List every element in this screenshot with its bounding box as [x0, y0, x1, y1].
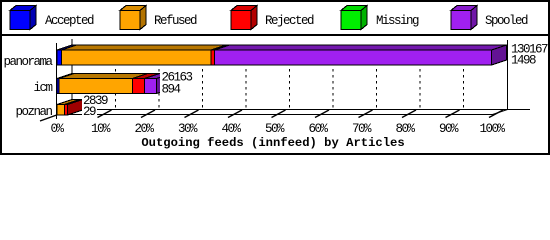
tick 70% — [359, 110, 373, 118]
bar panorama: orange segment — [62, 45, 227, 65]
svg-text:40%: 40% — [221, 122, 241, 136]
svg-text:100%: 100% — [479, 122, 505, 136]
legend cube Refused — [120, 6, 146, 30]
legend cube Spooled — [451, 6, 477, 30]
bar poznan: orange segment — [57, 100, 80, 116]
value label background icm — [160, 70, 196, 96]
tick 30% — [185, 110, 199, 118]
tick 60% — [315, 110, 329, 118]
svg-text:90%: 90% — [439, 122, 459, 136]
bar panorama: red segment — [211, 45, 230, 65]
back 100% axis line — [507, 40, 509, 110]
legend cube Missing — [341, 6, 367, 30]
bar panorama: blue segment — [57, 45, 77, 65]
tick 40% — [228, 110, 242, 118]
svg-text:Refused: Refused — [154, 14, 197, 28]
dashed gridlines 10%-90% (back wall) — [116, 45, 464, 110]
svg-text:Outgoing feeds (innfeed) by Ar: Outgoing feeds (innfeed) by Articles — [141, 136, 404, 150]
svg-text:Missing: Missing — [376, 14, 419, 28]
svg-text:panorama: panorama — [3, 55, 53, 69]
bar panorama: purple segment — [215, 45, 507, 65]
bar icm: purple segment — [145, 74, 172, 94]
legend cube Accepted — [10, 6, 36, 30]
bottom-right corner edge — [493, 110, 508, 115]
outer border — [1, 1, 549, 154]
legend separator — [2, 34, 548, 36]
tick 90% — [446, 110, 460, 118]
tick 50% — [272, 110, 286, 118]
back bottom axis line — [72, 109, 530, 111]
x ticks — [40, 110, 503, 122]
svg-text:80%: 80% — [395, 122, 415, 136]
tick 20% — [141, 110, 155, 118]
tick 0% — [40, 110, 72, 122]
svg-text:60%: 60% — [308, 122, 328, 136]
bar poznan: red segment — [65, 100, 83, 116]
svg-text:10%: 10% — [91, 122, 111, 136]
svg-text:20%: 20% — [134, 122, 154, 136]
svg-text:Rejected: Rejected — [265, 14, 314, 28]
tick 100% — [489, 110, 503, 118]
y axis — [56, 43, 58, 119]
svg-text:poznan: poznan — [15, 105, 52, 119]
legend cube Rejected — [231, 6, 257, 30]
value label background poznan — [82, 96, 110, 107]
svg-text:50%: 50% — [265, 122, 285, 136]
front bottom axis line — [57, 114, 493, 116]
bar icm: red segment — [133, 74, 160, 94]
svg-text:Accepted: Accepted — [45, 14, 94, 28]
svg-text:Spooled: Spooled — [485, 14, 528, 28]
tick 10% — [98, 110, 112, 118]
svg-text:70%: 70% — [352, 122, 372, 136]
svg-text:29: 29 — [83, 105, 96, 119]
tick 80% — [402, 110, 416, 118]
svg-text:0%: 0% — [50, 122, 64, 136]
svg-text:icm: icm — [33, 81, 52, 95]
bar icm: blue segment — [57, 74, 74, 94]
svg-text:30%: 30% — [178, 122, 198, 136]
back 0% axis line — [71, 39, 73, 110]
bar icm: orange segment — [59, 74, 148, 94]
x axis labels — [50, 122, 505, 136]
svg-text:1498: 1498 — [511, 54, 536, 68]
svg-text:894: 894 — [162, 83, 181, 97]
